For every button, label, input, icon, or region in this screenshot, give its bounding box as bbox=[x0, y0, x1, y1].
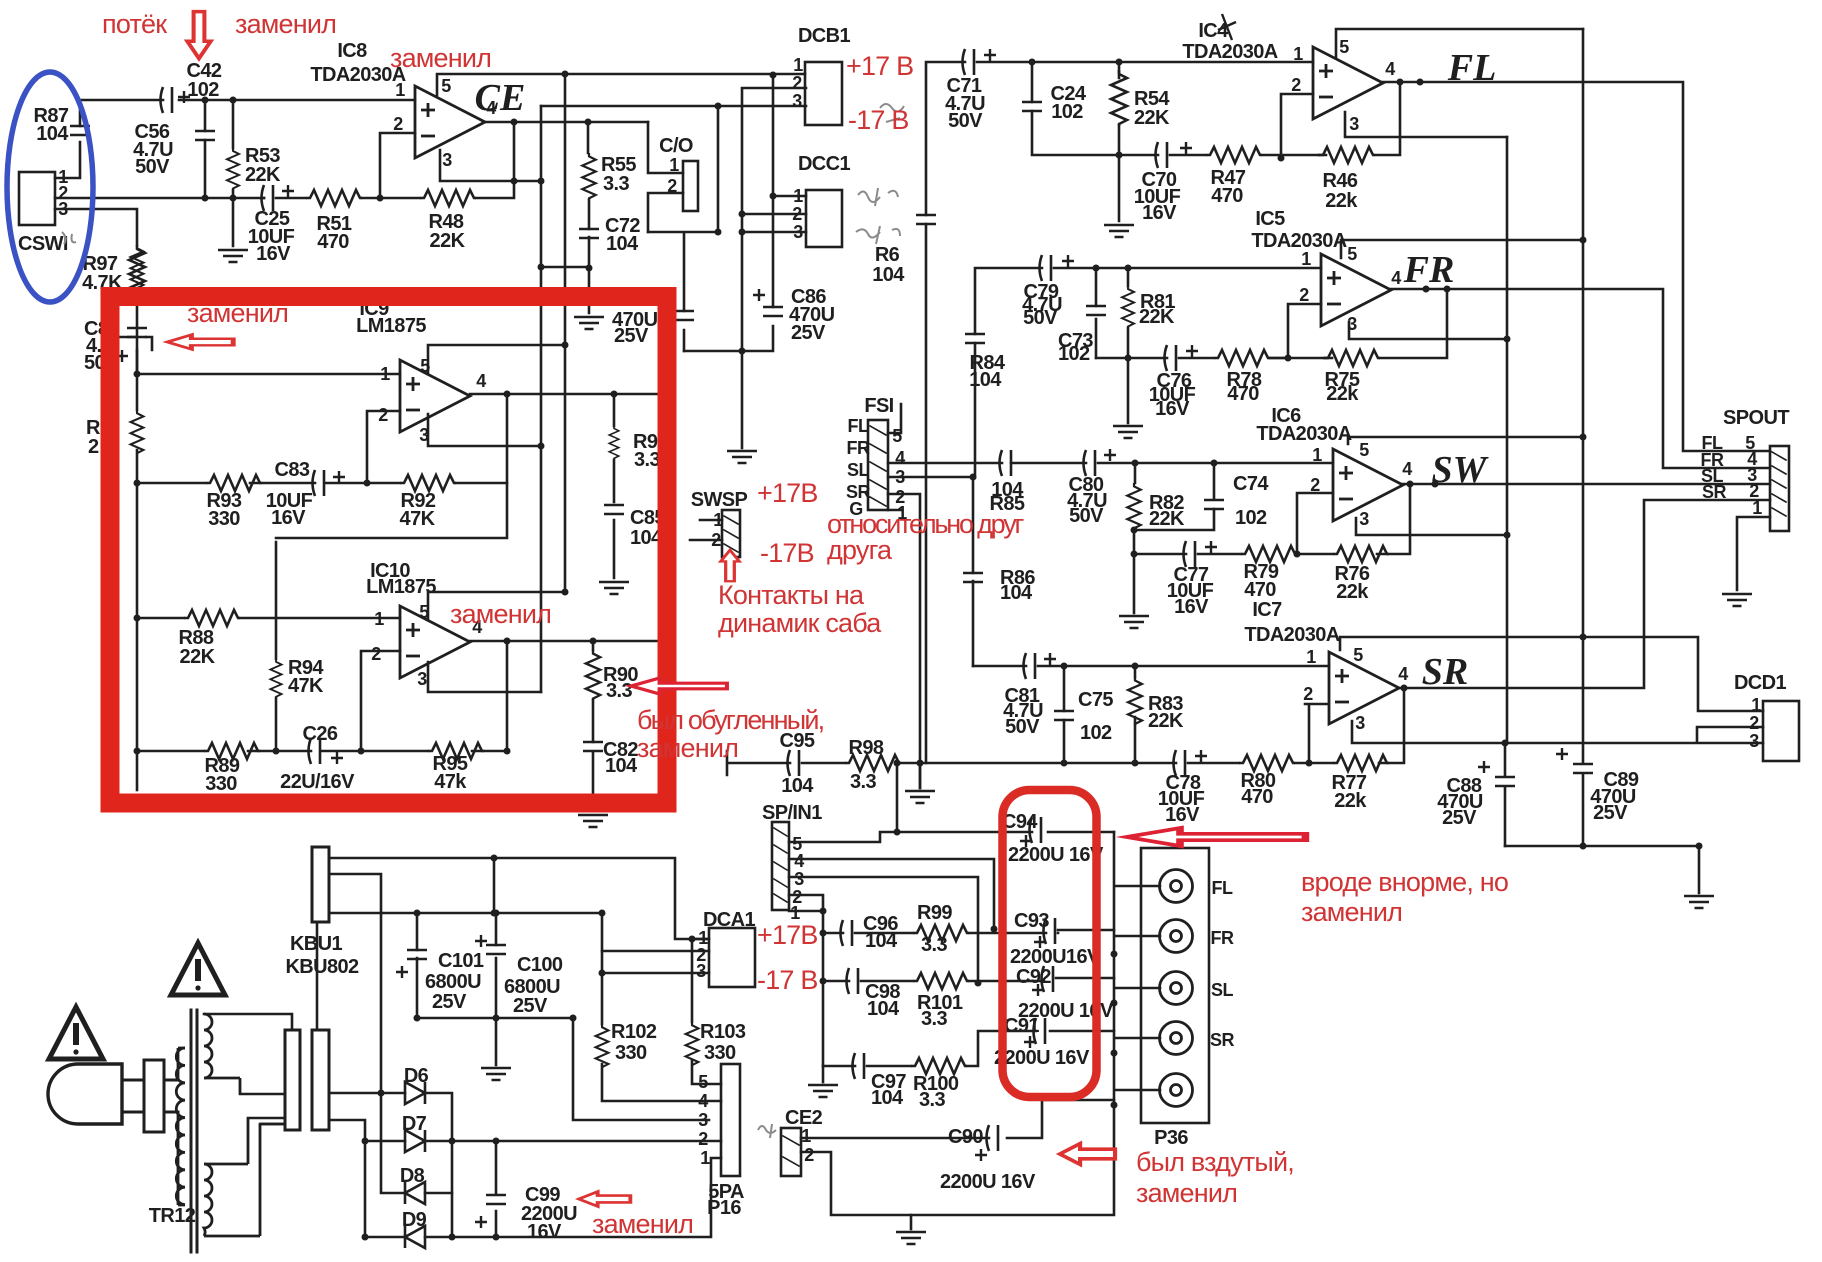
svg-text:SP/IN1: SP/IN1 bbox=[762, 802, 822, 824]
svg-text:4: 4 bbox=[1385, 59, 1395, 79]
svg-text:1: 1 bbox=[395, 80, 405, 100]
svg-text:5: 5 bbox=[1359, 440, 1369, 460]
svg-text:CSWI: CSWI bbox=[18, 233, 68, 255]
svg-text:3.3: 3.3 bbox=[921, 1008, 947, 1030]
svg-text:3: 3 bbox=[1347, 314, 1357, 334]
svg-text:2: 2 bbox=[667, 176, 677, 196]
svg-text:+17 В: +17 В bbox=[846, 51, 913, 81]
svg-text:заменил: заменил bbox=[450, 599, 551, 629]
svg-text:3: 3 bbox=[794, 869, 804, 889]
svg-text:330: 330 bbox=[615, 1042, 647, 1064]
svg-text:330: 330 bbox=[208, 508, 240, 530]
svg-text:470: 470 bbox=[317, 231, 349, 253]
svg-text:1: 1 bbox=[1306, 647, 1316, 667]
svg-text:47k: 47k bbox=[434, 771, 467, 793]
svg-text:DCB1: DCB1 bbox=[798, 25, 851, 47]
svg-text:2: 2 bbox=[711, 530, 721, 550]
svg-text:2: 2 bbox=[1749, 713, 1759, 733]
svg-text:3: 3 bbox=[895, 467, 905, 487]
svg-text:6800U: 6800U bbox=[425, 971, 481, 993]
svg-text:FR: FR bbox=[1403, 249, 1455, 291]
svg-text:TDA2030A: TDA2030A bbox=[1256, 423, 1351, 445]
svg-text:104: 104 bbox=[36, 123, 69, 145]
svg-text:заменил: заменил bbox=[187, 298, 288, 328]
svg-text:330: 330 bbox=[704, 1042, 736, 1064]
svg-text:1: 1 bbox=[1751, 695, 1761, 715]
svg-text:1: 1 bbox=[1293, 44, 1303, 64]
svg-text:2: 2 bbox=[1299, 285, 1309, 305]
svg-text:TDA2030A: TDA2030A bbox=[1244, 624, 1339, 646]
svg-text:104: 104 bbox=[1000, 582, 1033, 604]
svg-text:SL: SL bbox=[847, 460, 870, 480]
svg-text:25V: 25V bbox=[1593, 802, 1628, 824]
svg-text:1: 1 bbox=[793, 55, 803, 75]
svg-text:102: 102 bbox=[187, 79, 219, 101]
svg-text:470: 470 bbox=[1211, 185, 1243, 207]
svg-text:C93: C93 bbox=[1014, 910, 1049, 932]
svg-text:2: 2 bbox=[1303, 684, 1313, 704]
svg-text:R103: R103 bbox=[700, 1021, 746, 1043]
svg-text:D9: D9 bbox=[402, 1209, 427, 1231]
svg-text:16V: 16V bbox=[1174, 596, 1209, 618]
svg-text:3: 3 bbox=[792, 91, 802, 111]
svg-text:3: 3 bbox=[58, 199, 68, 219]
svg-text:104: 104 bbox=[781, 775, 814, 797]
svg-text:SR: SR bbox=[1422, 651, 1468, 693]
svg-text:102: 102 bbox=[1058, 343, 1090, 365]
svg-text:C90: C90 bbox=[948, 1126, 983, 1148]
svg-text:TDA2030A: TDA2030A bbox=[1251, 230, 1346, 252]
svg-text:KBU802: KBU802 bbox=[285, 956, 359, 978]
svg-text:3: 3 bbox=[1359, 509, 1369, 529]
svg-text:22K: 22K bbox=[1148, 710, 1184, 732]
svg-text:заменил: заменил bbox=[592, 1209, 693, 1239]
svg-text:5: 5 bbox=[1339, 37, 1349, 57]
svg-text:104: 104 bbox=[865, 930, 898, 952]
svg-text:потёк: потёк bbox=[102, 9, 167, 39]
svg-text:TDA2030A: TDA2030A bbox=[1182, 41, 1277, 63]
svg-text:динамик саба: динамик саба bbox=[718, 608, 882, 638]
svg-text:IC8: IC8 bbox=[337, 40, 367, 62]
svg-text:+17В: +17В bbox=[757, 478, 818, 508]
svg-text:SW: SW bbox=[1432, 449, 1490, 491]
svg-text:3.3: 3.3 bbox=[921, 934, 947, 956]
svg-text:50V: 50V bbox=[1069, 505, 1104, 527]
svg-text:5: 5 bbox=[1353, 645, 1363, 665]
svg-text:25V: 25V bbox=[432, 991, 467, 1013]
svg-text:50V: 50V bbox=[135, 156, 170, 178]
svg-text:3: 3 bbox=[698, 1110, 708, 1130]
svg-text:заменил: заменил bbox=[390, 43, 491, 73]
svg-text:P16: P16 bbox=[707, 1197, 741, 1219]
svg-text:5: 5 bbox=[441, 76, 451, 96]
svg-text:3: 3 bbox=[793, 222, 803, 242]
svg-text:SR: SR bbox=[1210, 1030, 1235, 1050]
svg-text:C/O: C/O bbox=[659, 135, 693, 157]
svg-text:3: 3 bbox=[442, 150, 452, 170]
svg-text:2: 2 bbox=[88, 436, 99, 458]
svg-text:3.3: 3.3 bbox=[606, 680, 632, 702]
svg-text:R102: R102 bbox=[611, 1021, 657, 1043]
svg-text:22k: 22k bbox=[1334, 790, 1367, 812]
svg-text:D6: D6 bbox=[404, 1065, 429, 1087]
svg-text:4: 4 bbox=[895, 448, 905, 468]
svg-text:FSI: FSI bbox=[864, 395, 893, 417]
svg-text:1: 1 bbox=[1752, 498, 1762, 518]
svg-text:-17В: -17В bbox=[760, 538, 814, 568]
svg-text:Контакты на: Контакты на bbox=[718, 580, 865, 610]
svg-text:2200U16V: 2200U16V bbox=[1010, 946, 1101, 968]
svg-text:3: 3 bbox=[696, 961, 706, 981]
svg-text:C91: C91 bbox=[1004, 1015, 1039, 1037]
svg-text:DCD1: DCD1 bbox=[1734, 672, 1787, 694]
svg-text:104: 104 bbox=[872, 264, 905, 286]
svg-text:3: 3 bbox=[1355, 713, 1365, 733]
svg-text:1: 1 bbox=[380, 364, 390, 384]
svg-text:был обугленный,: был обугленный, bbox=[637, 705, 824, 735]
svg-text:3: 3 bbox=[419, 425, 429, 445]
svg-text:470: 470 bbox=[1227, 383, 1259, 405]
svg-text:2: 2 bbox=[792, 204, 802, 224]
svg-text:2: 2 bbox=[698, 1129, 708, 1149]
svg-text:4: 4 bbox=[1398, 664, 1408, 684]
svg-text:2: 2 bbox=[371, 644, 381, 664]
svg-text:22U/16V: 22U/16V bbox=[280, 771, 355, 793]
svg-text:1: 1 bbox=[374, 609, 384, 629]
svg-text:4: 4 bbox=[794, 851, 804, 871]
svg-text:5: 5 bbox=[698, 1072, 708, 1092]
svg-text:1: 1 bbox=[801, 1126, 811, 1146]
svg-text:3: 3 bbox=[1349, 114, 1359, 134]
svg-text:4: 4 bbox=[698, 1091, 708, 1111]
svg-text:SR: SR bbox=[1702, 482, 1727, 502]
svg-text:вроде внорме, но: вроде внорме, но bbox=[1301, 867, 1508, 897]
svg-text:FL: FL bbox=[848, 416, 869, 436]
svg-text:22K: 22K bbox=[1139, 306, 1175, 328]
svg-text:DCA1: DCA1 bbox=[703, 909, 756, 931]
svg-text:5: 5 bbox=[892, 426, 902, 446]
svg-text:47K: 47K bbox=[400, 508, 436, 530]
svg-text:25V: 25V bbox=[513, 995, 548, 1017]
svg-text:16V: 16V bbox=[527, 1221, 562, 1243]
svg-text:SL: SL bbox=[1211, 980, 1234, 1000]
svg-text:заменил: заменил bbox=[1301, 897, 1402, 927]
svg-text:KBU1: KBU1 bbox=[290, 933, 343, 955]
svg-text:C74: C74 bbox=[1233, 473, 1269, 495]
svg-text:4: 4 bbox=[1391, 268, 1401, 288]
svg-text:1: 1 bbox=[1301, 249, 1311, 269]
svg-text:IC7: IC7 bbox=[1252, 599, 1282, 621]
svg-text:102: 102 bbox=[1080, 722, 1112, 744]
svg-text:22K: 22K bbox=[180, 646, 216, 668]
svg-text:D7: D7 bbox=[402, 1113, 427, 1135]
svg-text:C83: C83 bbox=[275, 459, 310, 481]
svg-text:5: 5 bbox=[419, 602, 429, 622]
svg-text:заменил: заменил bbox=[637, 733, 738, 763]
svg-text:50V: 50V bbox=[1005, 716, 1040, 738]
svg-text:3: 3 bbox=[1749, 731, 1759, 751]
svg-text:LM1875: LM1875 bbox=[356, 315, 426, 337]
svg-text:2: 2 bbox=[1310, 475, 1320, 495]
svg-text:16V: 16V bbox=[271, 507, 306, 529]
svg-text:FL: FL bbox=[1212, 878, 1233, 898]
svg-text:-17 В: -17 В bbox=[848, 105, 909, 135]
svg-text:4: 4 bbox=[476, 371, 486, 391]
svg-text:3.3: 3.3 bbox=[603, 173, 629, 195]
svg-text:22k: 22k bbox=[1336, 581, 1369, 603]
svg-text:16V: 16V bbox=[256, 243, 291, 265]
svg-text:D8: D8 bbox=[400, 1165, 425, 1187]
svg-text:CE: CE bbox=[475, 77, 526, 119]
svg-text:1: 1 bbox=[713, 510, 723, 530]
svg-text:FR: FR bbox=[847, 438, 870, 458]
svg-text:DCC1: DCC1 bbox=[798, 153, 851, 175]
svg-text:330: 330 bbox=[205, 773, 237, 795]
svg-text:заменил: заменил bbox=[1136, 1178, 1237, 1208]
svg-text:-17 В: -17 В bbox=[757, 965, 818, 995]
svg-text:47K: 47K bbox=[288, 675, 324, 697]
svg-text:470: 470 bbox=[1244, 579, 1276, 601]
svg-text:P36: P36 bbox=[1154, 1127, 1188, 1149]
svg-text:102: 102 bbox=[1051, 101, 1083, 123]
svg-text:C92: C92 bbox=[1016, 966, 1051, 988]
svg-text:104: 104 bbox=[606, 233, 639, 255]
svg-text:1: 1 bbox=[1312, 445, 1322, 465]
svg-text:3.3: 3.3 bbox=[919, 1089, 945, 1111]
svg-text:C100: C100 bbox=[517, 954, 563, 976]
svg-text:50V: 50V bbox=[948, 110, 983, 132]
svg-text:IC5: IC5 bbox=[1255, 208, 1285, 230]
svg-text:R46: R46 bbox=[1323, 170, 1358, 192]
svg-text:2: 2 bbox=[804, 1145, 814, 1165]
svg-text:C26: C26 bbox=[303, 723, 338, 745]
svg-text:2: 2 bbox=[792, 73, 802, 93]
svg-text:470: 470 bbox=[1241, 786, 1273, 808]
svg-text:16V: 16V bbox=[1142, 202, 1177, 224]
svg-text:2: 2 bbox=[1291, 75, 1301, 95]
svg-text:1: 1 bbox=[793, 186, 803, 206]
svg-text:3: 3 bbox=[417, 669, 427, 689]
svg-text:104: 104 bbox=[969, 369, 1002, 391]
svg-text:3.3: 3.3 bbox=[634, 449, 660, 471]
svg-text:5: 5 bbox=[420, 356, 430, 376]
svg-text:LM1875: LM1875 bbox=[366, 576, 436, 598]
svg-text:C101: C101 bbox=[438, 950, 484, 972]
svg-text:SWSP: SWSP bbox=[691, 489, 748, 511]
svg-text:5: 5 bbox=[1347, 244, 1357, 264]
svg-text:SPOUT: SPOUT bbox=[1723, 407, 1789, 429]
svg-text:2: 2 bbox=[378, 405, 388, 425]
svg-text:был вздутый,: был вздутый, bbox=[1136, 1147, 1294, 1177]
svg-text:R99: R99 bbox=[917, 902, 952, 924]
svg-text:104: 104 bbox=[867, 998, 900, 1020]
svg-text:50V: 50V bbox=[1023, 307, 1058, 329]
svg-text:друга: друга bbox=[827, 535, 893, 565]
svg-text:102: 102 bbox=[1235, 507, 1267, 529]
svg-text:R6: R6 bbox=[875, 244, 900, 266]
svg-text:22K: 22K bbox=[1149, 508, 1185, 530]
svg-text:25V: 25V bbox=[1442, 807, 1477, 829]
svg-text:2200U 16V: 2200U 16V bbox=[940, 1171, 1036, 1193]
svg-text:+17В: +17В bbox=[757, 920, 818, 950]
svg-text:1: 1 bbox=[700, 1148, 710, 1168]
svg-text:2: 2 bbox=[393, 114, 403, 134]
svg-text:104: 104 bbox=[871, 1087, 904, 1109]
svg-text:25V: 25V bbox=[791, 322, 826, 344]
svg-text:22K: 22K bbox=[245, 164, 281, 186]
svg-text:FL: FL bbox=[1447, 47, 1497, 89]
svg-text:22k: 22k bbox=[1325, 190, 1358, 212]
svg-text:25V: 25V bbox=[614, 325, 649, 347]
svg-text:C75: C75 bbox=[1078, 689, 1113, 711]
svg-text:C94: C94 bbox=[1002, 811, 1038, 833]
svg-text:22k: 22k bbox=[1326, 383, 1359, 405]
svg-text:1: 1 bbox=[669, 155, 679, 175]
svg-text:22K: 22K bbox=[1134, 107, 1170, 129]
svg-text:104: 104 bbox=[605, 755, 638, 777]
svg-text:2200U 16V: 2200U 16V bbox=[1008, 844, 1104, 866]
svg-text:22K: 22K bbox=[430, 230, 466, 252]
svg-text:2200U 16V: 2200U 16V bbox=[994, 1047, 1090, 1069]
svg-text:заменил: заменил bbox=[235, 9, 336, 39]
svg-text:16V: 16V bbox=[1155, 398, 1190, 420]
svg-text:R98: R98 bbox=[849, 737, 884, 759]
svg-text:FR: FR bbox=[1211, 928, 1234, 948]
svg-text:TR12: TR12 bbox=[149, 1205, 196, 1227]
svg-text:3.3: 3.3 bbox=[850, 771, 876, 793]
svg-text:4: 4 bbox=[1402, 459, 1412, 479]
svg-text:16V: 16V bbox=[1165, 804, 1200, 826]
